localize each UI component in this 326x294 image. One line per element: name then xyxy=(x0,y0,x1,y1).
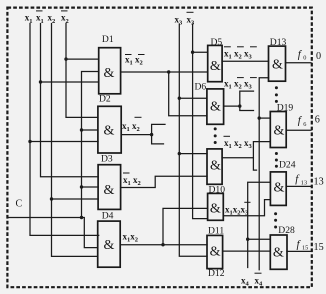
wire D3 output to D10 xyxy=(121,176,207,187)
wire D10 to D19 xyxy=(253,142,270,158)
svg-text:D19: D19 xyxy=(277,103,294,114)
wire D2 branch up stub xyxy=(152,124,165,134)
junction D4 output branch xyxy=(161,243,164,246)
wire x-bar-1 rail xyxy=(41,24,99,177)
svg-text:&: & xyxy=(104,66,115,81)
svg-text:13: 13 xyxy=(314,176,324,187)
wire D1 output to D5 xyxy=(121,71,208,73)
svg-text:D3: D3 xyxy=(101,154,113,165)
wire D12 output to D28 xyxy=(223,250,271,252)
wire f13 output xyxy=(286,185,311,187)
svg-text:D2: D2 xyxy=(99,94,111,105)
svg-text:x1 x2 x3: x1 x2 x3 xyxy=(224,138,253,150)
svg-text:&: & xyxy=(273,181,284,196)
svg-text:6: 6 xyxy=(303,121,306,128)
junction C riser D2 xyxy=(80,128,83,131)
wire x1 rail xyxy=(30,24,99,236)
and-gate D6 box xyxy=(207,89,224,124)
svg-text:6: 6 xyxy=(315,114,320,125)
overbar D3 label xyxy=(123,172,130,174)
and-gate D13 box xyxy=(269,46,286,81)
svg-text:D5: D5 xyxy=(211,37,223,48)
svg-text:D12: D12 xyxy=(208,268,225,279)
junction on x-bar-1 rail at D1 xyxy=(39,80,42,83)
junction on C line xyxy=(80,216,83,219)
svg-text:&: & xyxy=(273,246,284,261)
svg-text:&: & xyxy=(104,183,115,198)
junction D2 output branch xyxy=(150,133,153,136)
overbar x-bar-3 top xyxy=(187,11,194,13)
junction x4 rail at D28 xyxy=(246,238,249,241)
svg-text:D11: D11 xyxy=(208,225,224,236)
wire x3 to D6 xyxy=(179,97,207,99)
and-gate D24 box xyxy=(270,172,286,206)
wire D5 output to D13 xyxy=(222,60,268,62)
ellipsis dots D24-D28 xyxy=(274,212,277,215)
svg-text:D10: D10 xyxy=(209,185,226,196)
wire x-bar-2 rail xyxy=(66,24,98,118)
overbar x-bar-2 top xyxy=(61,10,68,12)
wire D6 branch up stub xyxy=(240,91,254,106)
and-gate D28 box xyxy=(270,235,287,269)
svg-text:D1: D1 xyxy=(102,34,114,45)
and-gate D10 box xyxy=(207,149,222,184)
wire C to D2 xyxy=(82,129,98,131)
wire D2 output xyxy=(121,134,151,136)
wire D10 output xyxy=(222,157,253,159)
svg-text:D13: D13 xyxy=(270,37,287,48)
junction x-bar-3 rail at D5 xyxy=(191,51,194,54)
overbars D5 label xyxy=(224,46,231,48)
wire f15 output xyxy=(287,250,311,252)
wire x-bar-1 to D1 xyxy=(41,81,99,83)
svg-text:&: & xyxy=(210,244,221,259)
and-gate D3 box xyxy=(98,165,121,210)
svg-text:&: & xyxy=(104,124,115,139)
svg-text:D24: D24 xyxy=(279,160,296,171)
wire x-bar-3 rail xyxy=(193,24,208,219)
wire x-bar-2 to D1 xyxy=(66,58,99,60)
junction D1 output branch xyxy=(167,70,170,73)
overbar x-bar-4 bottom xyxy=(255,272,262,274)
wire D6 branch down stub xyxy=(240,106,254,110)
ellipsis dots D19-D24 xyxy=(275,152,278,155)
and-gate D11 box xyxy=(208,193,224,220)
wire D11 output to D24 xyxy=(223,200,270,216)
wire D4 branch to D11 xyxy=(163,208,208,244)
ellipsis dots D13-D19 xyxy=(275,86,278,89)
junction on x-bar-2 rail at D1 xyxy=(64,57,67,60)
svg-text:x1 x2 x3: x1 x2 x3 xyxy=(224,49,253,61)
overbar D10 label xyxy=(224,135,231,137)
svg-text:x1 x2 x3: x1 x2 x3 xyxy=(224,79,253,91)
svg-text:&: & xyxy=(272,57,283,72)
wire x3 to D10 xyxy=(179,153,207,155)
svg-text:&: & xyxy=(210,59,221,74)
and-gate D5 box xyxy=(208,45,222,81)
junction on x1 rail at D2 xyxy=(28,140,31,143)
wire f6 output xyxy=(286,129,311,131)
and-gate D1 box xyxy=(99,48,121,94)
svg-text:15: 15 xyxy=(314,242,324,253)
junction on x2 rail at D3 xyxy=(50,197,53,200)
svg-text:&: & xyxy=(104,238,115,253)
svg-text:&: & xyxy=(210,202,221,217)
junction x3 rail at D6 xyxy=(178,97,181,100)
wire D4 output to D12 xyxy=(120,244,207,246)
and-gate D4 box xyxy=(98,221,121,267)
and-gate D2 box xyxy=(98,106,121,153)
wire x4 rail xyxy=(248,182,271,267)
svg-text:D28: D28 xyxy=(278,225,295,236)
svg-text:C: C xyxy=(16,199,23,210)
wire x-bar-3 to D5 xyxy=(193,51,208,53)
wire f0 output xyxy=(286,62,312,64)
svg-text:&: & xyxy=(273,123,284,138)
wire C riser xyxy=(82,72,99,218)
and-gate D12 box xyxy=(207,235,223,268)
wire D10 tail stub xyxy=(253,158,256,170)
wire x4 to D28 xyxy=(248,238,271,240)
wire x-bar-4 rail xyxy=(259,78,268,270)
ellipsis dots middle column xyxy=(214,127,217,130)
svg-text:D6: D6 xyxy=(195,81,207,92)
svg-text:15: 15 xyxy=(302,245,308,252)
svg-text:13: 13 xyxy=(301,180,307,187)
wire C input xyxy=(7,218,97,248)
overbar x-bar-1 top xyxy=(36,10,43,12)
svg-text:0: 0 xyxy=(303,55,306,62)
overbars D6 label xyxy=(237,77,244,79)
svg-text:&: & xyxy=(210,159,221,174)
overbars D1 label xyxy=(125,54,132,56)
svg-text:&: & xyxy=(210,100,221,115)
wire D1 branch to D6 xyxy=(169,72,207,116)
wire x1 to D2 xyxy=(30,141,98,143)
junction C riser D3 xyxy=(80,185,83,188)
wire x3 rail xyxy=(179,24,207,256)
wire D6 output xyxy=(224,105,240,107)
gate ampersands xyxy=(104,57,285,260)
junction x-bar-4 rail at D19 xyxy=(258,116,261,119)
overbar D11 label xyxy=(244,201,250,203)
junction D6 output branch xyxy=(238,104,241,107)
and-gate D19 box xyxy=(270,112,286,148)
wire D2 branch down stub xyxy=(152,135,164,144)
svg-text:D4: D4 xyxy=(102,211,114,222)
wire x2 to D3 xyxy=(52,198,99,200)
svg-text:0: 0 xyxy=(316,51,321,62)
overbar D2 label xyxy=(135,116,142,118)
wire C to D3 xyxy=(82,186,99,188)
wire x2 rail xyxy=(52,24,98,257)
wire x-bar-4 to D19 xyxy=(259,117,270,119)
junction x3 rail at D10 xyxy=(178,152,181,155)
